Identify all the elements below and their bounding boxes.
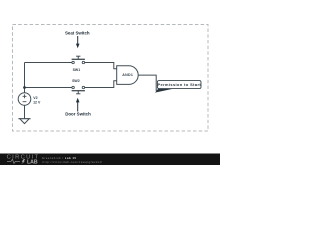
voltage source V2: [18, 93, 31, 106]
pushbutton SW2 (mirrored): [72, 86, 85, 94]
svg-text:V2: V2: [33, 96, 37, 100]
ground symbol: [18, 119, 30, 124]
schematic dashed border frame: [13, 25, 209, 132]
wire: SW1 right terminal to AND gate input A (with jog): [85, 63, 117, 69]
arrow pointing down at SW1: [77, 36, 79, 44]
wire: SW2 right terminal to AND gate input B (with jog): [85, 81, 117, 88]
node junction at rail / SW2 row: [23, 86, 26, 89]
wire: left vertical rail from SW1 row down to source V2: [24, 63, 26, 93]
svg-text:Door Switch: Door Switch: [65, 112, 91, 117]
CircuitLab logo: waveform + LAB: [7, 159, 20, 163]
footer black bar: [0, 154, 220, 166]
flag label box: Permission to Start: [157, 81, 201, 89]
wire: source bottom to ground: [24, 105, 26, 118]
svg-text:Seat Switch: Seat Switch: [65, 31, 90, 36]
svg-text:12 V: 12 V: [33, 100, 41, 104]
pushbutton SW1: [72, 56, 85, 64]
svg-text:Permission to Start: Permission to Start: [157, 82, 201, 87]
svg-text:SW2: SW2: [72, 79, 80, 83]
arrow pointing up at SW2: [76, 98, 80, 103]
svg-text:http:​//circuitlab.com/cswq/gf: http:​//circuitlab.com/cswq/gfac2s3: [43, 160, 103, 164]
svg-text:SW1: SW1: [73, 68, 81, 72]
svg-text:AND1: AND1: [122, 73, 133, 77]
wire: second row from rail junction to SW2 left terminal: [25, 87, 72, 89]
AND gate AND1: [117, 66, 138, 85]
wire: AND gate output to flag anchor: [138, 75, 156, 91]
flag pennant pointer: [155, 88, 173, 92]
wire: top row from rail to SW1 left terminal: [25, 62, 72, 64]
svg-text:LAB: LAB: [27, 159, 38, 165]
